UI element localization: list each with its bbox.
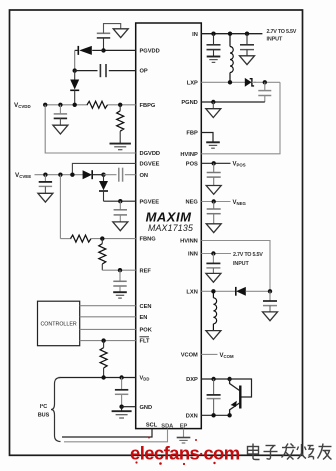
svg-text:OP: OP [140,69,148,75]
wire SDA [64,429,168,442]
svg-text:INPUT: INPUT [233,261,249,267]
wire PGVDD pin to node [104,49,136,51]
capacitor C14 (INN bypass) [206,254,220,274]
transistor Q1 (diode-connected NPN) [230,379,252,415]
svg-text:IN: IN [192,32,198,38]
I2C bus brace [51,378,61,442]
node on FBNG row [100,236,104,240]
wire POS row [201,162,230,164]
svg-text:NEG: NEG [185,200,198,206]
node on OP row [73,68,77,72]
watermark Chinese char 1 (dian) [248,444,260,460]
svg-text:CEN: CEN [140,304,152,310]
watermark Chinese char 2 (zi) [264,446,278,460]
diode D6 (inverter rectifier) [236,287,270,296]
node NEG [212,199,216,203]
wire HVINN [201,241,270,292]
svg-text:2.7V TO 5.5V: 2.7V TO 5.5V [267,29,297,35]
ground (triangle) at L2 [206,331,221,340]
svg-text:FBP: FBP [186,131,198,137]
svg-text:PGND: PGND [181,100,197,106]
svg-text:VCOM: VCOM [181,353,198,359]
capacitor C10 (IN bypass 2) [240,34,254,56]
IC right pin labels [180,32,198,420]
ground (bars) at R2 [110,144,131,150]
svg-text:EP: EP [180,423,188,429]
svg-text:REF: REF [140,268,152,274]
node on GND row [119,405,123,409]
ground (triangle) at C14 [206,273,221,282]
ground (triangle) at C1 [113,29,128,38]
resistor R2 (FBPG pulldown) [117,105,124,143]
svg-text:MAX17135: MAX17135 [148,223,193,233]
wire LXP row [201,81,245,83]
svg-text:DGVDD: DGVDD [140,151,161,157]
wire DGVEE [72,163,135,174]
IC left pin labels [140,48,161,410]
wire PGVEE [104,200,136,202]
diode D5 (boost rectifier, schottky) [245,78,256,87]
wire POK [80,328,136,330]
svg-text:BUS: BUS [38,412,50,418]
node dots DXN [211,413,215,417]
svg-text:POK: POK [140,328,153,334]
ground (bars) at EP [177,438,191,444]
watermark Chinese char 5 (you) [318,444,332,460]
capacitor C12 (POS) [207,163,221,185]
svg-text:EN: EN [140,315,148,321]
wire down to DGVDD row [45,105,136,153]
resistor R3 (FBNG) [71,235,92,242]
ground (triangle) at C6 [113,222,128,231]
ground (triangle) at C15 [263,312,278,321]
inductor L2 [213,291,216,330]
node dots on VCVDD row [43,103,47,107]
diode D1 (to PGVDD) [75,46,104,55]
controller box [38,301,80,346]
resistor R5 (FLT pullup to VDD) [100,341,107,378]
node dots on IN row [211,32,215,36]
svg-text:HVINP: HVINP [180,152,198,158]
capacitor C13 (NEG) [207,202,221,224]
svg-text:FBNG: FBNG [140,237,157,243]
svg-text:GND: GND [140,405,153,411]
inductor L1 [230,34,233,83]
svg-text:VPOS: VPOS [233,162,246,168]
wire corner down to OP row [74,50,76,70]
capacitor C3 (VCVDD bypass) [54,105,67,125]
svg-text:2.7V TO 5.5V: 2.7V TO 5.5V [233,252,263,258]
svg-text:VCVEE: VCVEE [15,172,31,179]
svg-text:FLT: FLT [140,339,151,345]
capacitor C5 (series, ON pin) [104,174,117,176]
node INN [211,251,215,255]
capacitor C8 (VDD bypass) [115,378,128,407]
capacitor C6 [114,201,127,222]
watermark Chinese char 4 (shao) [297,444,314,460]
resistor R1 (to FBPG) [87,101,108,108]
diode D2 (vertical, to FBPG row) [70,71,79,105]
node LXP/inductor [228,80,232,84]
watermark Chinese char 3 (fa) [282,444,296,460]
resistor R4 (FBNG to REF) [99,239,106,271]
ground (triangle) at C3 [53,125,68,134]
svg-text:HVINN: HVINN [180,239,198,245]
wire FLT [80,340,136,342]
node on REF row [118,268,122,272]
svg-text:CONTROLLER: CONTROLLER [40,322,76,328]
svg-text:PGVDD: PGVDD [140,48,160,54]
svg-text:POS: POS [186,161,198,167]
IC U1 MAX17135 body [136,23,202,429]
wire SCL [62,429,152,437]
node dots DXP [211,377,215,381]
capacitor C2 (series, OP) [100,64,106,77]
HVINP rail wire [201,82,280,154]
svg-text:PGVEE: PGVEE [140,199,160,205]
node HV output [263,80,267,84]
wire LXP node to rail [254,81,280,83]
wire DXP row [201,378,229,380]
wire VDD row [59,377,136,379]
FBP ground stub [201,133,213,143]
node on FLT wire [101,338,105,342]
node LXN [211,289,215,293]
node VNEG out [268,289,272,293]
wire IN row [201,33,262,35]
svg-text:FBPG: FBPG [140,103,156,109]
svg-text:INPUT: INPUT [267,37,283,43]
node dots on VDD row [101,375,105,379]
svg-text:INN: INN [188,252,198,258]
svg-text:DGVEE: DGVEE [140,162,160,168]
capacitor C9 (IN bypass 1) [207,34,221,57]
svg-text:VNEG: VNEG [233,200,247,206]
wire VCVDD row [44,104,89,106]
svg-text:LXN: LXN [186,289,197,295]
wire INN row [201,253,231,255]
node POS [212,161,216,165]
wire VCOM [201,353,217,355]
wire VCVEE/ON row [35,174,84,176]
node on PGVDD wire [101,48,105,52]
watermark drip dots [135,437,215,466]
wire DXN row [201,414,229,416]
capacitor C15 (VNEG output) [263,291,277,312]
capacitor C16 (DXP-DXN) [207,379,221,415]
svg-text:SCL: SCL [146,422,158,428]
svg-text:LXP: LXP [187,80,198,86]
wire down to FBNG row [59,175,61,239]
wire LXN row [201,290,235,292]
diode D3 (series, ON row) [83,170,104,179]
svg-text:elecfans·com: elecfans·com [130,443,240,464]
capacitor C4 (VCVEE bypass) [39,175,52,194]
wire CEN [80,305,136,307]
EP pin ground stub [183,429,185,438]
wire EN [80,316,136,318]
svg-text:DXP: DXP [186,377,198,383]
ground (bars) at GND [112,407,132,418]
capacitor C11 (boost output) [258,82,271,102]
ground (triangle) at PGND [212,102,214,109]
wire GND row [122,406,136,408]
node [118,199,122,203]
ground (bars) at C7 [113,292,127,298]
ground (triangle) at C10 [240,56,255,65]
node on PGND [211,100,215,104]
wire OP row [75,70,98,72]
wire NEG row [201,201,230,203]
ground (triangle) at C12 [206,186,221,195]
svg-text:I²C: I²C [40,403,47,410]
svg-text:VCVDD: VCVDD [14,102,31,109]
svg-text:ON: ON [140,173,149,179]
diode D4 (vertical, to PGVEE) [99,175,108,202]
ground (triangle) at C4 [38,193,53,202]
svg-text:SDA: SDA [161,423,173,429]
wire FBNG row [60,238,71,240]
svg-text:VDD: VDD [140,376,150,382]
svg-text:VCOM: VCOM [220,353,234,359]
wire PGND row [201,101,264,103]
capacitor C7 (REF) [113,270,126,291]
ground (triangle) at C13 [206,224,221,233]
ground (bars) at C9 [207,57,221,63]
svg-text:DXN: DXN [186,413,198,419]
node dots ON row [43,173,47,177]
FLT overline [140,336,150,338]
capacitor C1 (PGVDD bypass) [97,24,121,51]
ground (bars) at FBP [206,142,220,148]
wire REF row [102,269,135,271]
